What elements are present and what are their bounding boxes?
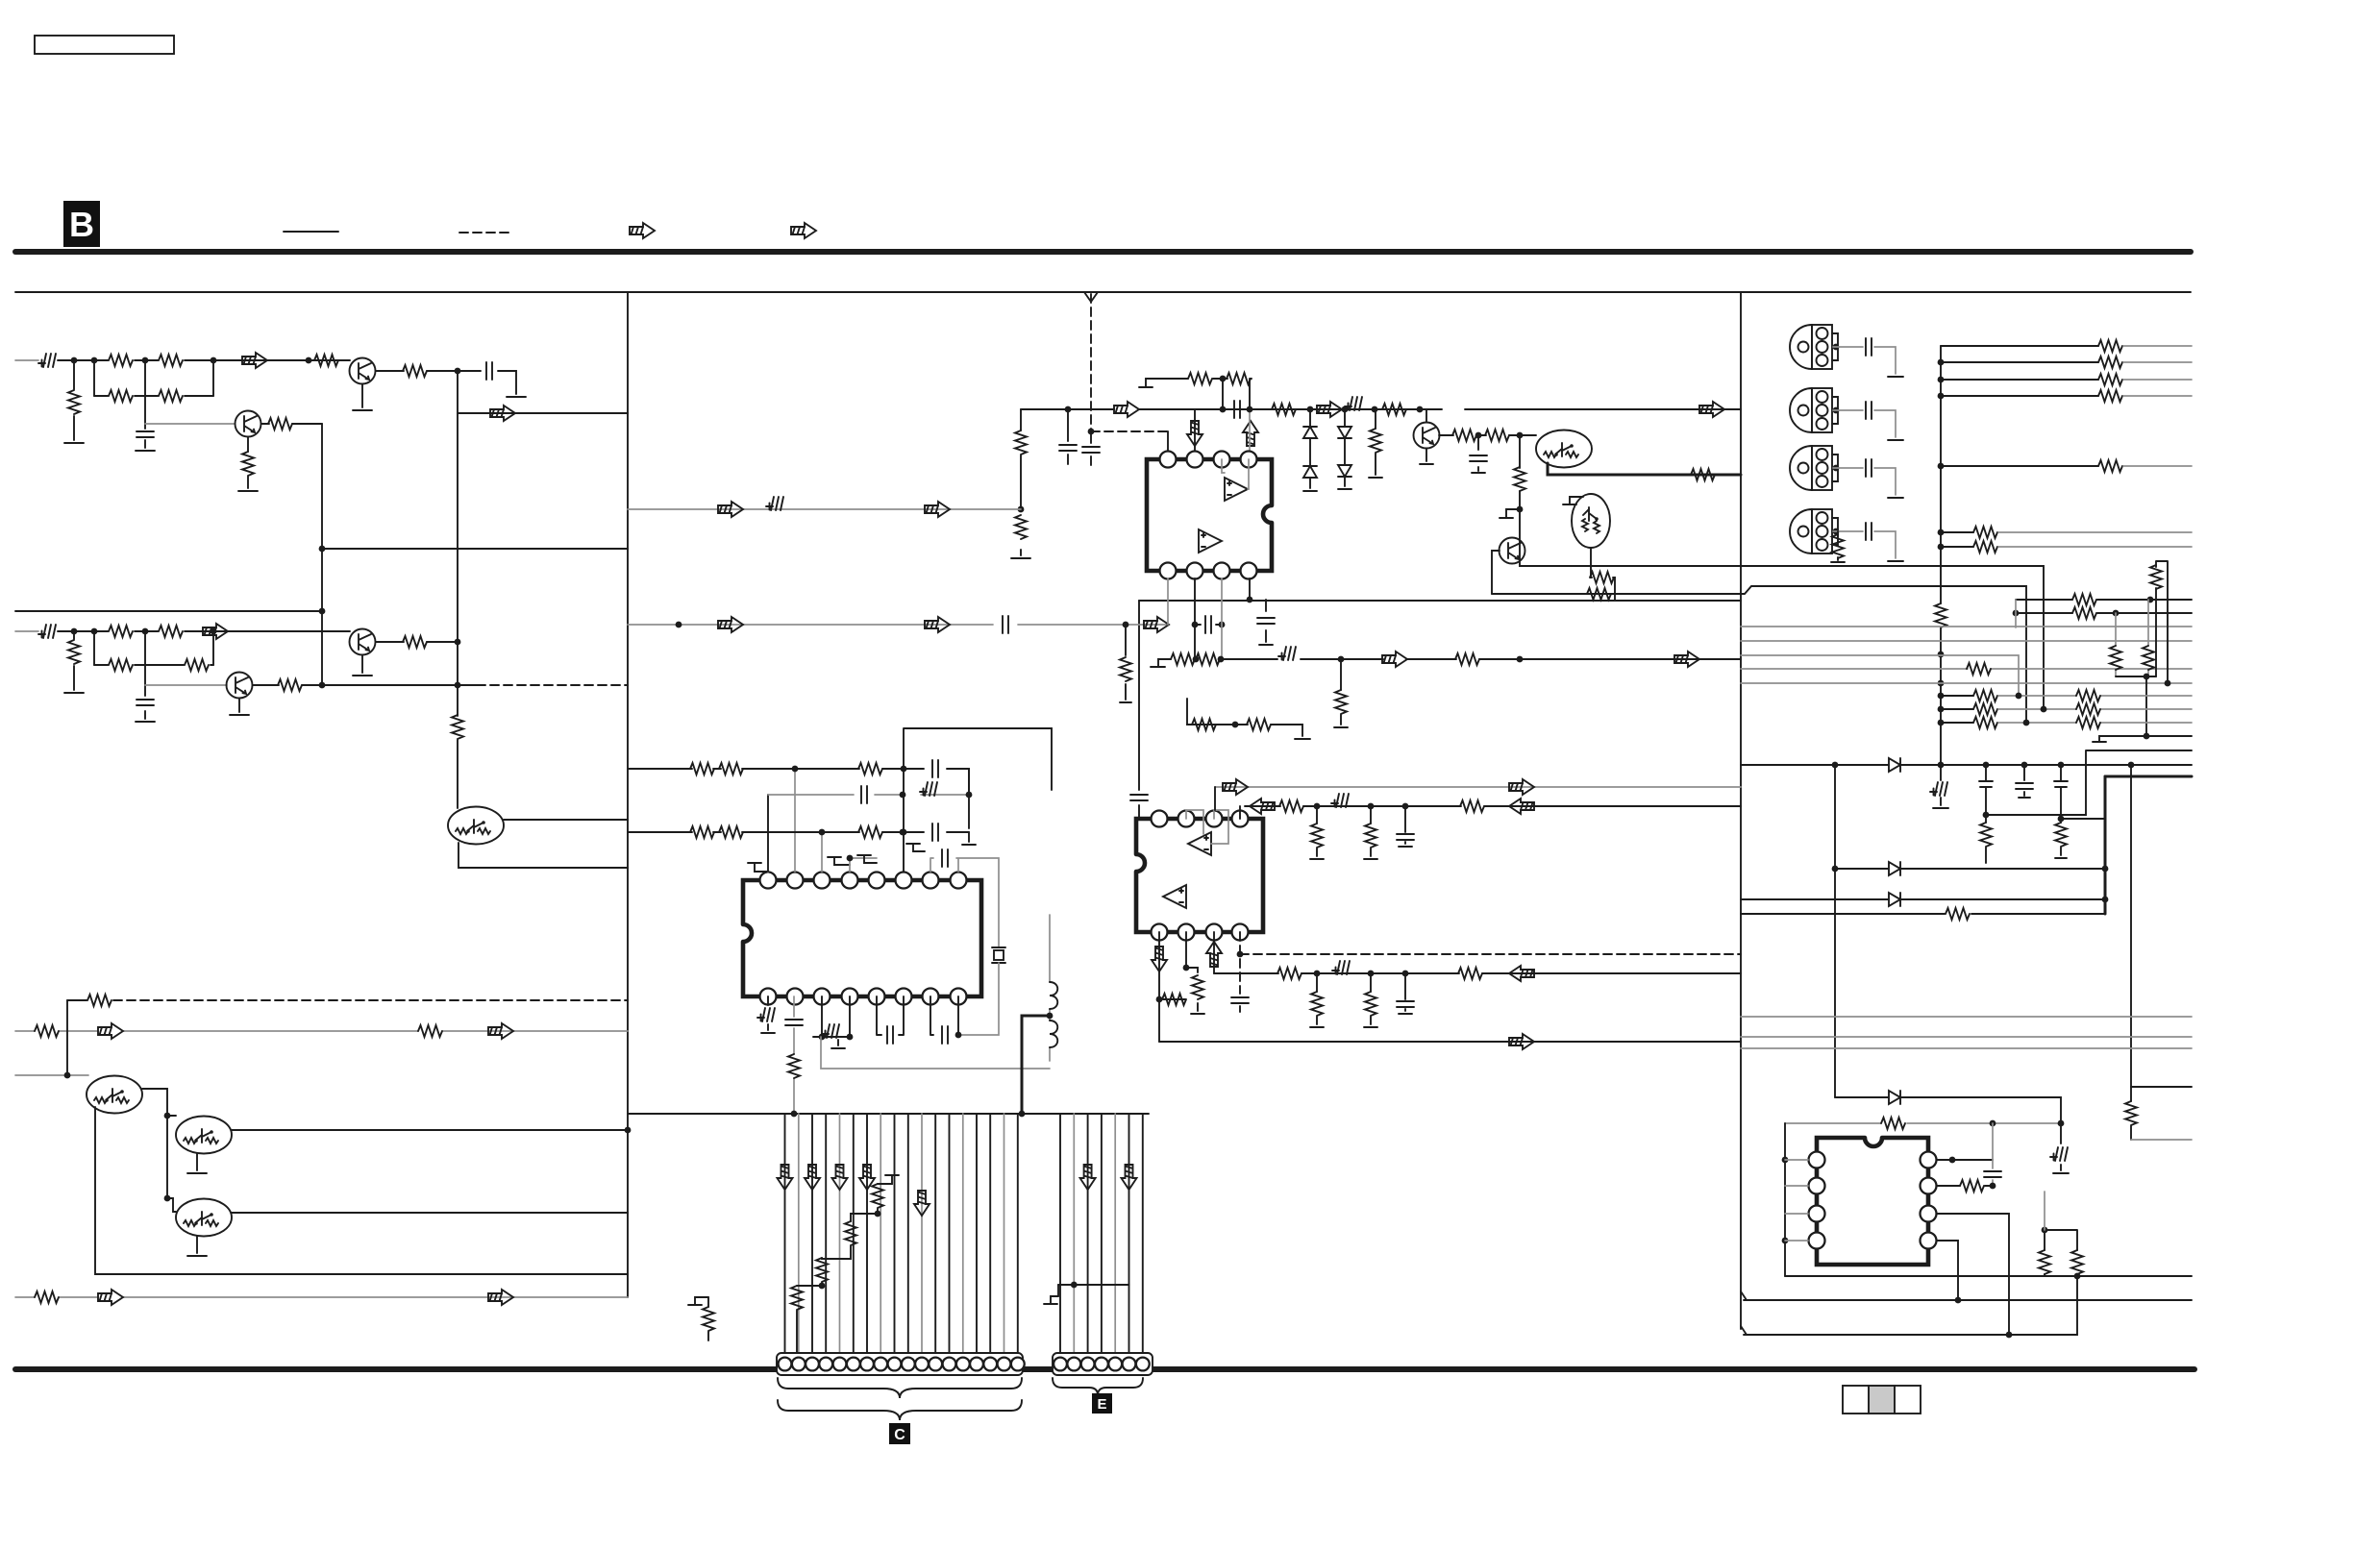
node <box>1088 429 1095 435</box>
wire <box>247 437 249 488</box>
right section boundary <box>1740 292 1742 1329</box>
signal-flag arrow <box>1243 421 1258 446</box>
wire <box>1058 1284 1129 1286</box>
net: supply rail <box>2105 775 2192 778</box>
ground <box>1831 561 1845 563</box>
wire <box>1835 868 2105 870</box>
wire <box>1370 806 1372 856</box>
wire <box>1492 551 1500 594</box>
signal-flag arrow <box>925 502 950 517</box>
node <box>1938 359 1945 366</box>
node <box>2144 674 2150 680</box>
ground <box>238 490 258 492</box>
wire <box>1985 765 1987 863</box>
wire <box>1187 724 1193 725</box>
wire <box>2123 361 2192 363</box>
left section boundary <box>627 292 629 1297</box>
node <box>955 1032 962 1039</box>
wire <box>1159 378 1252 380</box>
node <box>1517 506 1524 513</box>
node <box>1183 965 1190 971</box>
ground <box>857 855 877 863</box>
wire <box>628 624 1168 626</box>
photo sensor PS2 <box>1790 388 1838 432</box>
wire <box>877 996 904 1035</box>
transistor Q8 <box>1414 423 1440 449</box>
resistor R79 <box>1973 690 1997 701</box>
resistor R46 <box>719 826 743 838</box>
brace for connector E <box>1053 1378 1143 1395</box>
node <box>1402 803 1409 810</box>
wire <box>1833 468 1896 495</box>
node <box>319 546 326 553</box>
wire <box>2123 395 2192 397</box>
connector C pin <box>998 1358 1011 1371</box>
signal-flag arrow <box>805 1165 820 1190</box>
resistor R21 <box>35 1291 59 1303</box>
polarized capacitor C2 <box>38 625 56 638</box>
ground <box>828 857 850 865</box>
signal-flag arrow <box>1509 799 1534 814</box>
wire <box>2045 1230 2077 1276</box>
wire <box>1213 932 1215 973</box>
pin <box>1214 452 1230 468</box>
resistor R76 <box>2110 646 2121 670</box>
node <box>875 1211 881 1217</box>
resistor R49 <box>872 1184 883 1208</box>
resistor R38 <box>1335 690 1347 714</box>
svg-text:B: B <box>69 205 94 244</box>
node <box>1782 1157 1789 1164</box>
resistor R69 <box>2098 390 2122 402</box>
wire <box>1167 431 1169 451</box>
ground <box>1888 376 1903 378</box>
pin <box>842 873 858 889</box>
op-amp U3a <box>1188 832 1211 855</box>
polarized capacitor C7 <box>757 1008 775 1021</box>
wire <box>1941 531 1973 533</box>
pin <box>1921 1178 1937 1194</box>
wire <box>1833 531 1896 558</box>
wire <box>113 999 628 1001</box>
resistor R35 <box>1120 657 1131 681</box>
wire <box>196 1153 198 1170</box>
resistor R39 <box>1455 653 1479 665</box>
wire <box>1020 409 1022 555</box>
resistor R25 <box>1227 373 1251 384</box>
node <box>1247 597 1253 603</box>
pin <box>896 873 912 889</box>
wire <box>1194 578 1196 659</box>
wire <box>767 795 769 872</box>
ground <box>1044 1296 1058 1304</box>
wire <box>1784 1123 1786 1276</box>
wire <box>1114 1114 1116 1353</box>
wire <box>768 794 969 796</box>
ground <box>1295 738 1310 740</box>
resistor R83 <box>2076 703 2100 715</box>
connector C pin <box>956 1358 970 1371</box>
resistor R59 <box>1192 975 1203 999</box>
pin <box>814 873 831 889</box>
transistor Q7 <box>176 1199 232 1237</box>
wire <box>1741 668 2192 670</box>
capacitor C20 <box>1231 997 1249 1003</box>
pin <box>787 873 804 889</box>
capacitor C15 <box>932 824 938 841</box>
node <box>847 1034 854 1041</box>
node <box>1417 406 1424 413</box>
ground <box>1364 858 1377 860</box>
resistor R67 <box>2098 357 2122 368</box>
wire <box>1167 578 1169 625</box>
resistor R9 <box>242 452 254 476</box>
wire <box>1185 932 1187 968</box>
photo sensor PS3 <box>1790 446 1838 490</box>
wire <box>707 1297 709 1307</box>
resistor R44 <box>858 763 882 774</box>
wire <box>1439 434 1536 436</box>
resistor R19 <box>35 1025 59 1037</box>
wire <box>1195 624 1222 626</box>
resistor R8 <box>452 715 463 739</box>
wire <box>707 1332 709 1340</box>
net: dashed control line <box>1090 294 1092 431</box>
ground <box>2019 797 2030 799</box>
op-amp IC U3 <box>1136 819 1263 932</box>
wire <box>1833 347 1896 374</box>
transistor Q9 <box>1536 430 1592 468</box>
node <box>1368 803 1375 810</box>
resistor R2 <box>159 355 183 366</box>
section label B <box>63 201 100 247</box>
signal-flag arrow <box>914 1191 930 1216</box>
pin <box>1178 811 1195 827</box>
ground <box>1191 1013 1204 1015</box>
wire <box>1223 379 1250 409</box>
resistor R29 <box>1452 430 1476 441</box>
node <box>91 357 98 364</box>
wire <box>1239 806 1241 819</box>
wire <box>904 728 1052 872</box>
capacitor C9 <box>1003 616 1008 633</box>
pin <box>787 989 804 1005</box>
node <box>819 1034 826 1041</box>
node <box>1782 1238 1789 1244</box>
node <box>1983 812 1990 819</box>
wire <box>825 1114 827 1353</box>
resistor R33 <box>1587 588 1611 600</box>
node <box>1402 971 1409 977</box>
ground <box>1888 439 1903 441</box>
ground <box>1338 488 1351 490</box>
wire <box>15 1030 628 1032</box>
node <box>164 1195 171 1202</box>
wire <box>144 665 146 719</box>
polarized capacitor C8 <box>822 1024 839 1038</box>
op-amp U3b <box>1163 885 1186 908</box>
wire <box>1941 695 1973 697</box>
label E <box>1092 1393 1112 1414</box>
wire <box>1837 531 1839 560</box>
wire <box>1785 1240 1808 1242</box>
wire <box>1249 409 1251 451</box>
ground <box>761 1032 775 1034</box>
wire <box>94 395 213 397</box>
wire <box>1404 973 1406 1011</box>
wire <box>1998 722 2192 724</box>
wire <box>196 1236 198 1253</box>
wire <box>2116 600 2148 676</box>
wire <box>1548 463 1741 475</box>
signal-flag arrow <box>1509 1034 1534 1049</box>
ground <box>1303 490 1317 492</box>
resistor R78 <box>2150 565 2162 589</box>
ground <box>1888 560 1903 562</box>
wire <box>2130 765 2132 1087</box>
wire <box>934 1114 936 1353</box>
capacitor C5 <box>1082 447 1100 453</box>
resistor R1 <box>109 355 133 366</box>
node <box>1938 762 1945 769</box>
polarized capacitor C5 <box>1278 647 1296 660</box>
connector E pin <box>1123 1358 1136 1371</box>
wire <box>1215 786 1741 788</box>
wire <box>459 820 628 868</box>
signal-flag arrow <box>1187 421 1202 446</box>
node <box>1833 529 1840 535</box>
pin <box>1206 924 1223 941</box>
signal-flag arrow <box>1509 779 1534 795</box>
connector E pin <box>1054 1358 1067 1371</box>
node <box>2023 720 2030 726</box>
wire <box>1941 345 2098 347</box>
pin <box>1232 811 1249 827</box>
wire <box>1941 379 2098 381</box>
wire <box>145 684 227 686</box>
wire <box>822 996 850 1037</box>
node <box>1833 344 1840 351</box>
node <box>1938 720 1945 726</box>
resistor R5 <box>68 390 80 414</box>
ground <box>353 675 372 676</box>
ground <box>1472 472 1485 474</box>
wire <box>1741 655 2019 696</box>
pin <box>1921 1206 1937 1222</box>
resistor R53 <box>703 1307 714 1331</box>
capacitor C17 <box>887 1026 893 1044</box>
node <box>1220 406 1227 413</box>
wire <box>321 424 323 685</box>
wire <box>1785 1275 2192 1277</box>
wire <box>95 1107 628 1274</box>
wire <box>930 858 999 947</box>
diode D7 <box>1889 893 1900 906</box>
wire <box>877 1183 879 1185</box>
capacitor C1 <box>136 431 154 437</box>
node <box>1475 432 1482 439</box>
ground <box>1334 726 1348 728</box>
wire <box>1998 546 2192 548</box>
node <box>1314 971 1321 977</box>
transistor Q1 <box>350 358 376 384</box>
signal-flag arrow <box>791 223 816 238</box>
wire <box>253 684 477 686</box>
wire <box>1222 459 1249 489</box>
wire <box>1741 626 2192 627</box>
connector C pin <box>833 1358 847 1371</box>
wire <box>232 1129 628 1131</box>
resistor R12 <box>159 626 183 637</box>
resistor R40 <box>1192 719 1216 730</box>
resistor R65 <box>1935 603 1946 627</box>
connector C pin <box>792 1358 806 1371</box>
node <box>1047 1013 1054 1020</box>
ground <box>507 396 526 398</box>
wire <box>968 769 970 828</box>
wire <box>1139 600 1741 602</box>
wire <box>15 610 322 612</box>
wire <box>1316 806 1318 856</box>
node <box>455 639 461 646</box>
resistor R45 <box>690 826 714 838</box>
node <box>1938 680 1945 687</box>
node <box>2058 762 2065 769</box>
wire <box>15 630 38 632</box>
connector C pin <box>860 1358 874 1371</box>
wire <box>1941 722 1973 724</box>
node <box>1938 393 1945 400</box>
wire <box>1194 409 1196 451</box>
wire <box>1937 1214 2009 1335</box>
connector E pin <box>1067 1358 1080 1371</box>
transistor Q11 <box>1500 538 1525 564</box>
wire <box>2023 765 2025 796</box>
resistor R36 <box>1171 653 1195 665</box>
wire <box>2061 818 2105 820</box>
node <box>2041 706 2047 713</box>
pin <box>1214 563 1230 579</box>
wire <box>1249 578 1251 600</box>
capacitor C24 <box>1866 459 1872 477</box>
node <box>900 792 906 799</box>
node <box>2144 733 2150 740</box>
connector C pin <box>847 1358 860 1371</box>
signal-flag arrow <box>488 1290 513 1305</box>
node <box>2102 897 2109 903</box>
pin <box>1809 1152 1825 1168</box>
signal-flag arrow <box>98 1290 123 1305</box>
wire <box>457 413 459 808</box>
connector C <box>777 1353 1023 1375</box>
capacitor C13 <box>932 760 938 777</box>
wire <box>1067 409 1069 464</box>
wire <box>1937 1159 1993 1161</box>
top thick rule <box>15 249 2191 255</box>
pin <box>869 989 885 1005</box>
capacitor C21 <box>1397 1001 1414 1007</box>
node <box>1955 1297 1962 1304</box>
photo sensor PS1 <box>1790 325 1838 369</box>
wire <box>1941 361 2098 363</box>
wire <box>1004 1114 1005 1353</box>
wire <box>232 1212 628 1214</box>
resistor R30 <box>1485 430 1509 441</box>
wire <box>261 423 322 425</box>
resistor R80 <box>1973 703 1997 715</box>
resistor R6 <box>314 355 338 366</box>
wire <box>2016 612 2192 614</box>
signal-flag arrow <box>98 1023 123 1039</box>
node <box>2016 693 2022 700</box>
wire <box>1340 659 1342 725</box>
wire <box>376 641 458 643</box>
node <box>1338 656 1345 663</box>
node <box>1949 1157 1956 1164</box>
ground <box>136 450 155 452</box>
wire <box>1744 1276 2077 1335</box>
resistor R14 <box>185 659 209 671</box>
wire <box>793 996 795 1114</box>
wire <box>976 1114 978 1353</box>
node <box>2006 1332 2013 1339</box>
wire <box>2156 561 2168 683</box>
resistor R23 <box>1382 404 1406 415</box>
signal-flag arrow <box>718 502 743 517</box>
pin <box>1921 1152 1937 1168</box>
wire <box>1316 973 1318 1024</box>
net: dashed line <box>1239 932 1241 994</box>
node <box>1990 1183 1996 1190</box>
connector C pin <box>983 1358 997 1371</box>
transistor Q4 <box>227 673 253 699</box>
node <box>791 1111 798 1118</box>
pin <box>1152 924 1168 941</box>
node <box>64 1072 71 1079</box>
wire <box>866 1114 868 1353</box>
wire <box>1741 1047 2192 1049</box>
resistor R3 <box>109 390 133 402</box>
node <box>211 357 217 364</box>
wire <box>94 360 213 396</box>
wire <box>2016 599 2192 601</box>
node <box>1938 706 1945 713</box>
wire <box>167 1115 176 1117</box>
wire <box>628 831 969 833</box>
ground <box>1933 807 1948 809</box>
wire <box>1741 898 2105 900</box>
resistor R66 <box>2098 340 2122 352</box>
wire <box>1214 787 1216 810</box>
ground <box>64 442 84 444</box>
wire <box>1833 410 1896 437</box>
inductor L1 <box>1050 982 1057 1009</box>
brace for connector C <box>778 1378 1022 1398</box>
signal-flag arrow <box>1223 779 1248 795</box>
wire <box>1591 548 1615 601</box>
wire <box>1741 640 2192 642</box>
wire <box>821 832 823 872</box>
signal-flag arrow <box>1699 402 1724 417</box>
pin <box>1809 1178 1825 1194</box>
resistor R20 <box>418 1025 442 1037</box>
wire <box>2131 1086 2192 1088</box>
resistor R24 <box>1188 373 1212 384</box>
photo sensor PS4 <box>1790 509 1838 553</box>
ground <box>1310 1026 1324 1028</box>
wire <box>458 371 628 413</box>
connector C pin <box>779 1358 792 1371</box>
